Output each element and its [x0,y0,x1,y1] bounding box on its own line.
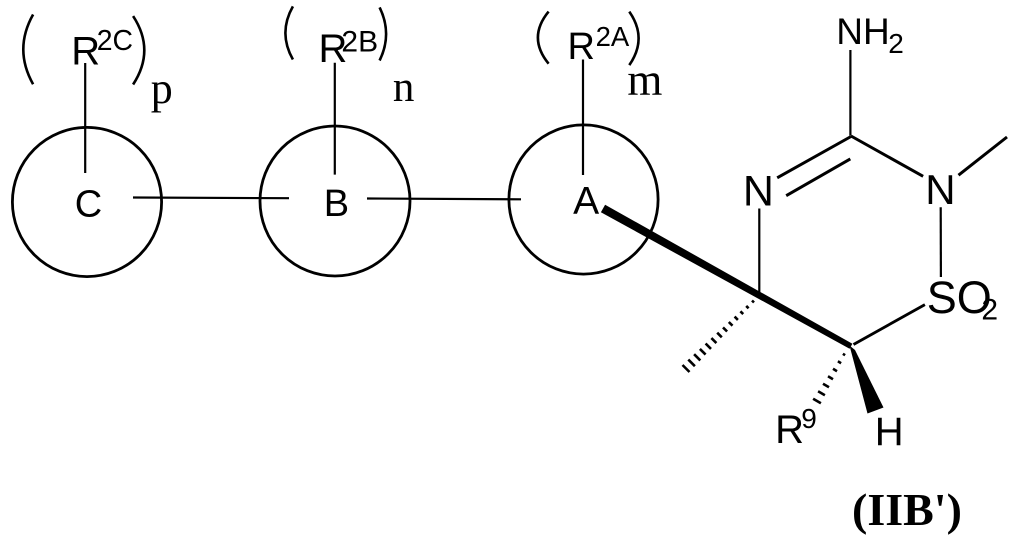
hashed wedge methyl on quaternary carbon [683,301,755,373]
bond ring C to ring B [133,196,289,199]
ring A circle [509,125,658,274]
svg-text:2: 2 [981,294,998,327]
svg-text:C: C [75,184,102,226]
hashed wedge bond CH to R9 [813,354,845,404]
bond R2C to ring C [84,63,86,173]
bond NH2 to ring carbon [849,50,851,136]
svg-text:2A: 2A [596,21,630,52]
svg-text:H: H [875,410,904,454]
bond N to SO2 [940,207,942,277]
svg-text:R: R [775,408,804,452]
svg-text:N: N [925,166,955,213]
bond N left to quaternary carbon [758,209,760,294]
bold wedge bond ring A to CH via quaternary carbon [601,205,853,349]
ring C circle [12,127,161,276]
svg-text:(IIB'): (IIB') [852,484,962,535]
svg-text:A: A [573,180,599,223]
left parenthesis of (R2C)p [23,15,33,85]
svg-text:2: 2 [888,28,904,59]
bond SO2 to CH carbon [854,305,925,345]
svg-text:2B: 2B [341,26,378,59]
svg-text:NH: NH [836,11,889,52]
bond C to N-methyl nitrogen [851,136,923,176]
svg-text:p: p [151,64,173,113]
left parenthesis of (R2B)n [285,6,293,59]
double bond C=N outer line [777,137,851,178]
N-methyl bond [959,137,1008,175]
bond ring B to ring A [367,197,521,200]
bond R2A to ring A [582,60,584,176]
svg-text:9: 9 [801,403,817,434]
right parenthesis of (R2A)m [629,12,638,66]
solid wedge bond CH to H [850,346,884,414]
right parenthesis of (R2C)p [133,16,144,84]
svg-text:m: m [627,55,662,105]
svg-text:B: B [324,183,349,225]
ring B circle [260,126,410,276]
svg-text:N: N [743,167,774,215]
bond R2B to ring B [334,63,336,175]
svg-text:2C: 2C [97,25,133,57]
svg-text:n: n [393,64,415,111]
right parenthesis of (R2B)n [380,7,387,60]
left parenthesis of (R2A)m [538,12,549,64]
double bond C=N inner line [786,159,850,196]
svg-text:R: R [568,26,595,68]
